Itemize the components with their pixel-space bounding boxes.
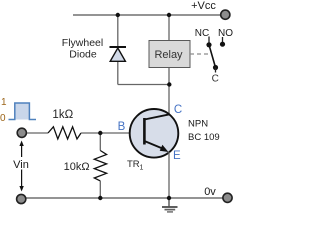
svg-text:Flywheel: Flywheel [62, 37, 103, 49]
svg-text:B: B [118, 121, 126, 133]
svg-text:E: E [173, 150, 181, 162]
svg-text:1: 1 [1, 97, 7, 108]
svg-text:NPN: NPN [188, 119, 208, 130]
svg-text:0v: 0v [204, 186, 216, 198]
svg-text:0: 0 [0, 113, 6, 124]
svg-text:TR: TR [127, 159, 140, 170]
svg-text:10kΩ: 10kΩ [64, 161, 90, 173]
svg-text:1: 1 [140, 164, 144, 171]
svg-text:1kΩ: 1kΩ [52, 109, 73, 121]
svg-text:+Vcc: +Vcc [191, 0, 216, 12]
svg-text:BC 109: BC 109 [188, 132, 220, 143]
svg-text:NO: NO [218, 28, 233, 39]
svg-text:C: C [174, 104, 182, 116]
svg-text:Vin: Vin [13, 159, 29, 171]
svg-text:Relay: Relay [154, 49, 183, 61]
svg-text:Diode: Diode [69, 49, 97, 61]
svg-text:NC: NC [195, 28, 209, 39]
svg-text:C: C [212, 73, 219, 84]
